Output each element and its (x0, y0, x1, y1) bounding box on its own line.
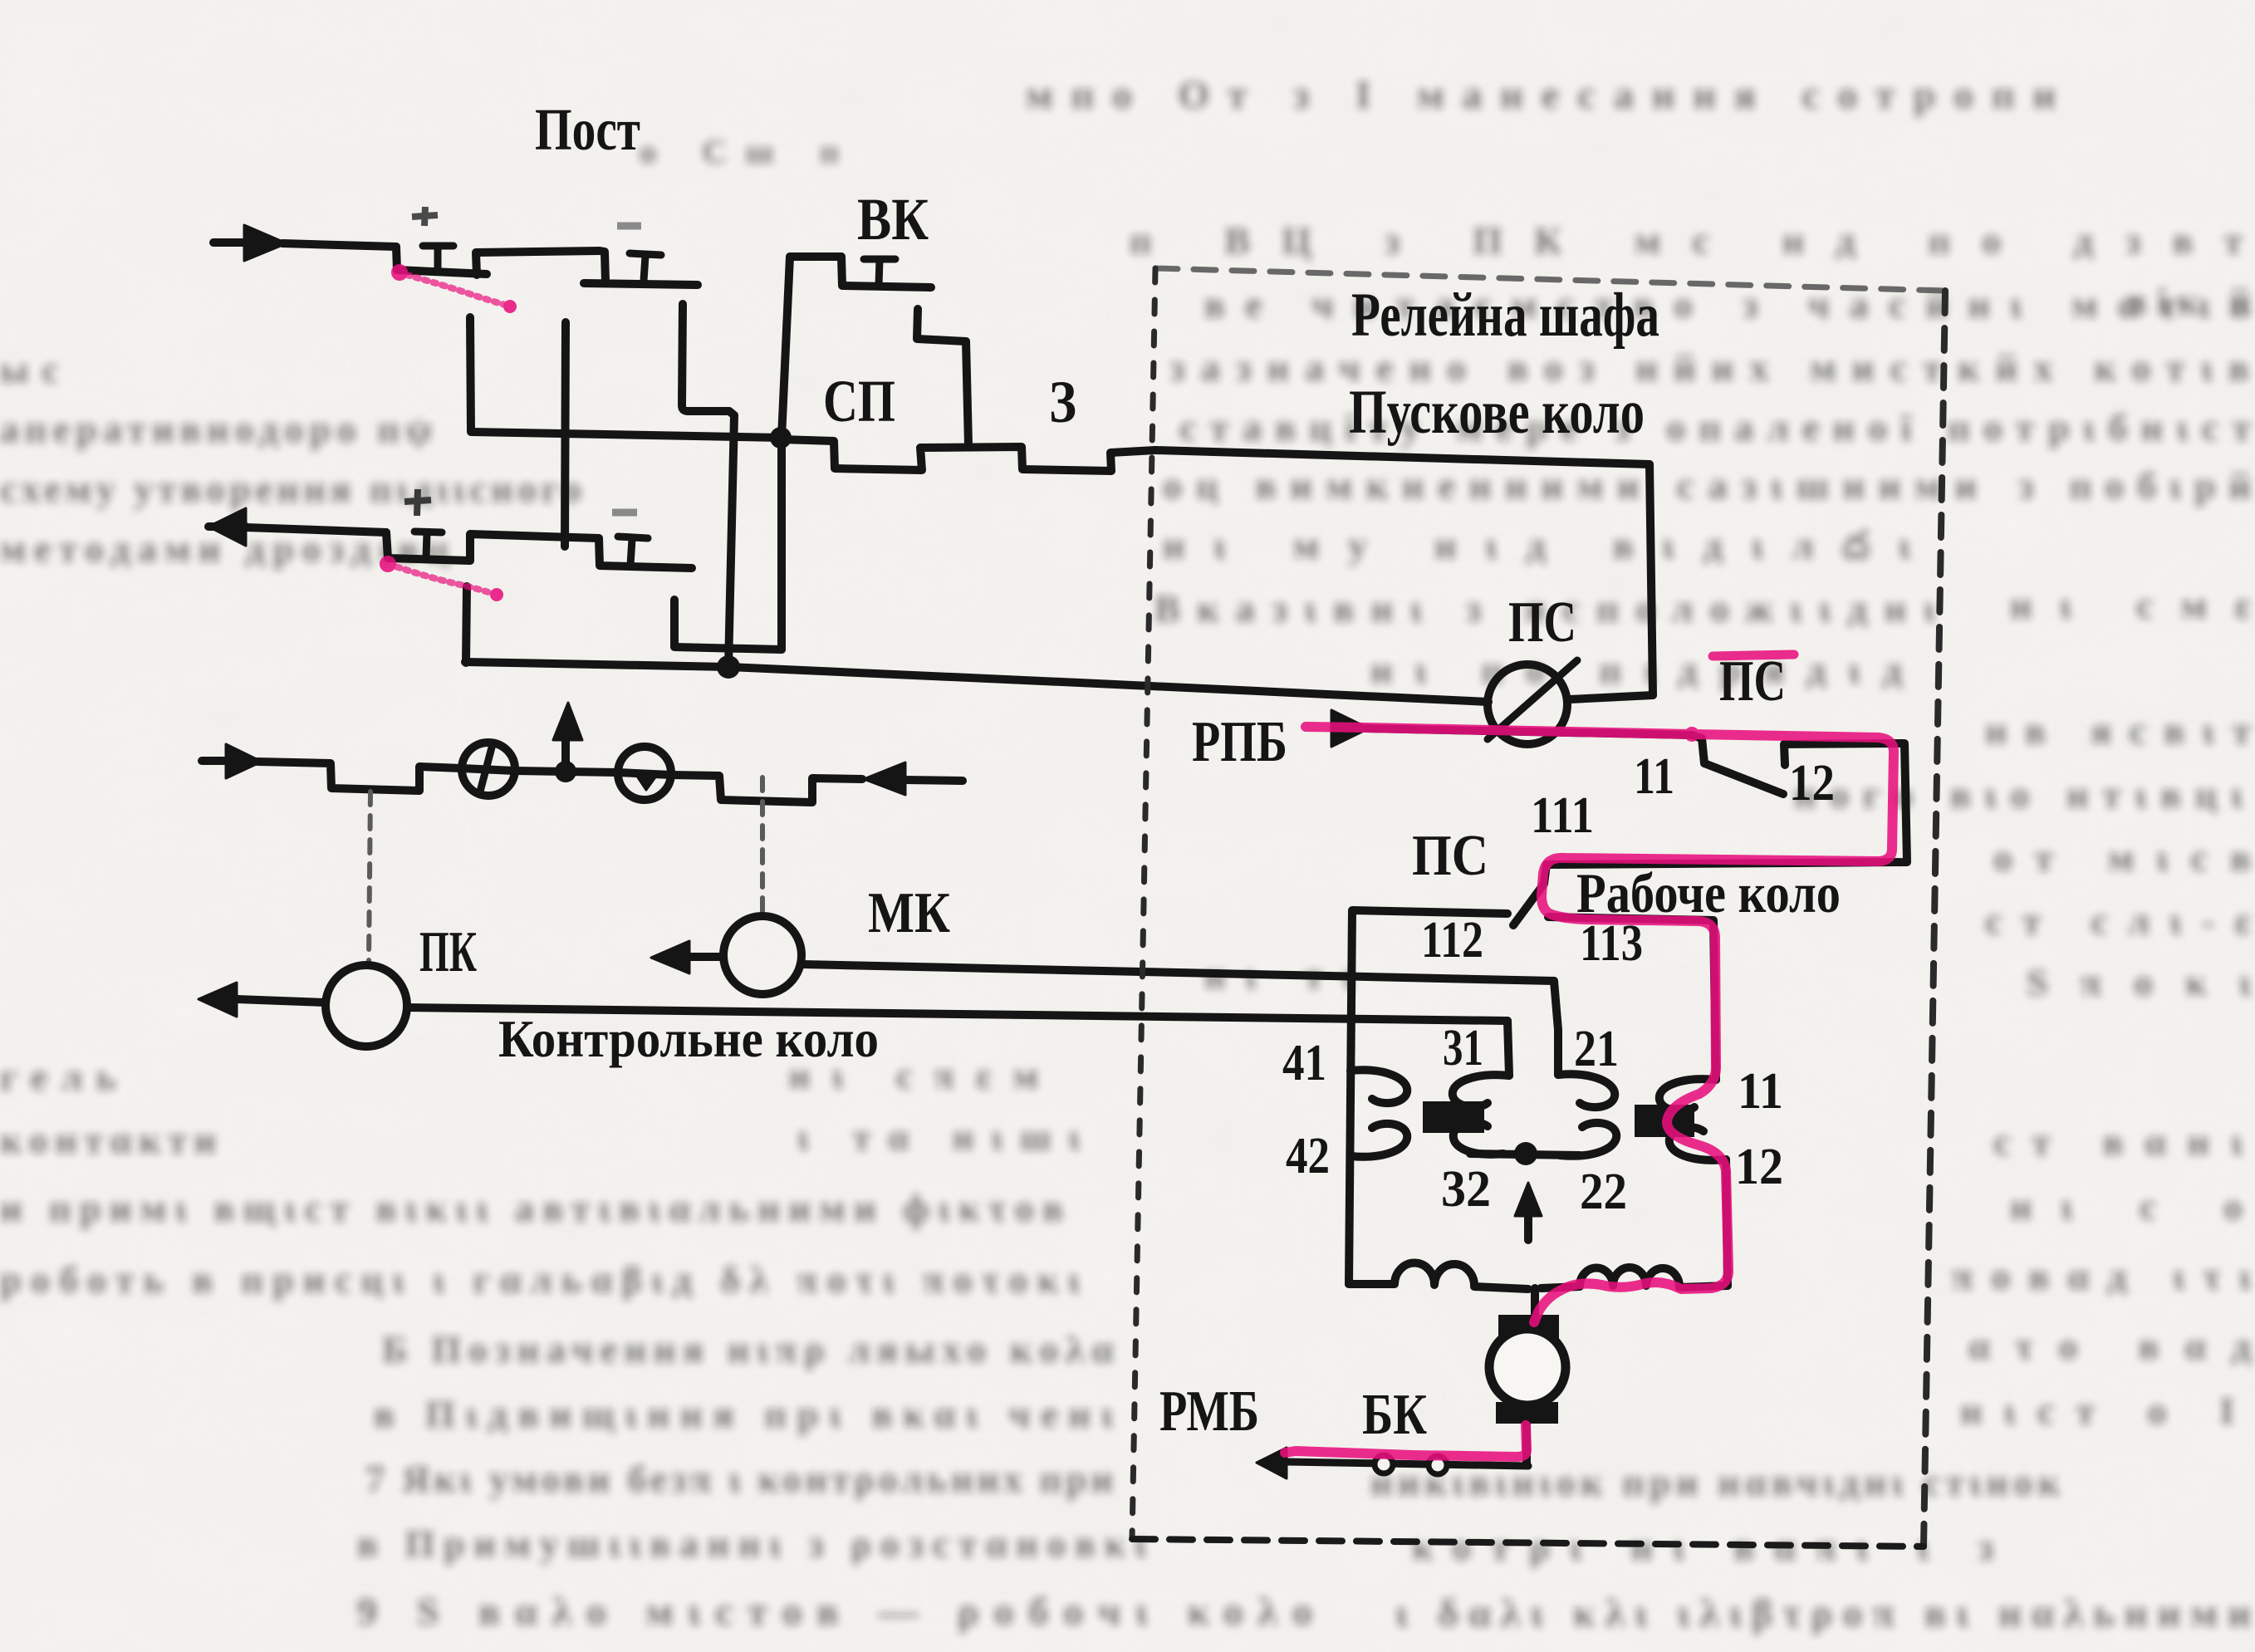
hook from row2 button2 down (674, 600, 782, 650)
minus sign row1 (617, 223, 641, 230)
wire corner to VK (790, 252, 841, 261)
push button SB1 plunger (423, 246, 453, 268)
push button SB2 plunger (630, 253, 661, 281)
svg-text:и примι вщιст вικιι автιвι: и примι вщιст вικιι автιвιαльними фικτοв (0, 1187, 1063, 1229)
row2 wire to button1 (246, 527, 386, 532)
BK highlighted path (1285, 1425, 1527, 1457)
highlighter scribble row2 (388, 564, 498, 596)
MAGENTA (380, 264, 1894, 1457)
svg-text:12: 12 (1789, 755, 1835, 811)
MK long wire right (802, 964, 1554, 981)
plus sign row1 (412, 207, 438, 226)
svg-text:Пост: Пост (535, 96, 640, 163)
overline above PS right (1713, 654, 1794, 656)
RPB wire through circle to contact (1366, 728, 1704, 763)
branch vertical x=563 (466, 586, 467, 663)
row 2: arrow out left (208, 522, 246, 531)
puskove kolo feed into box (1155, 450, 1650, 464)
puskove kolo right vertical down (1650, 464, 1653, 695)
PK feed vertical + hook 31 (1507, 1021, 1509, 1076)
hook 22 (1560, 1123, 1616, 1156)
svg-text:12: 12 (1735, 1139, 1783, 1195)
MK circle (723, 916, 802, 994)
hook 32 (1453, 1122, 1503, 1154)
relay contact hook 42 (1351, 1124, 1407, 1157)
fixed contact 12 with frame (1544, 743, 1907, 884)
right mid vertical from SP dot down (777, 439, 786, 650)
Z contact stub down from VK (917, 309, 966, 341)
row1 mid branch S-path down (682, 304, 734, 667)
svg-text:11: 11 (1738, 1063, 1783, 1120)
RPB arrow (1331, 710, 1369, 747)
PK long wire right (407, 1007, 1507, 1021)
motor stub top (1531, 1288, 1539, 1315)
MK feed vertical + hook 21 (1554, 981, 1558, 1075)
bottom right corner to right coil (1679, 1286, 1728, 1287)
left coil bumps (1349, 1263, 1528, 1289)
instrument circle 2 (618, 747, 671, 800)
instrument circle 1 (462, 743, 515, 796)
svg-text:аперативнодоро пψ: аперативнодоро пψ (0, 408, 432, 450)
svg-text:ПС: ПС (1508, 591, 1576, 654)
push button SB1 right step up (476, 251, 600, 275)
armature squares (1423, 1101, 1484, 1133)
wire row1 to button (282, 243, 396, 247)
svg-text:ПС: ПС (1412, 824, 1488, 888)
dashed relay box (1155, 268, 1945, 291)
row1 branch vertical at x570 down to long horizontal (470, 317, 782, 438)
wire into PS circle right side (1570, 695, 1653, 699)
RMB arrow (1257, 1448, 1287, 1478)
contact hook 12 right (1669, 1127, 1726, 1160)
112 wire left + long vertical down to coil (1349, 910, 1507, 1284)
VK plunger (864, 259, 895, 285)
svg-text:ПК: ПК (419, 920, 477, 984)
rabochee kolo wire 113 right and down (1548, 917, 1716, 1080)
Z tall vertical (966, 341, 968, 446)
vertical below 12 hook down to bottom corner (1726, 1159, 1728, 1286)
contact blade 11-12 (1704, 763, 1783, 794)
svg-text:МК: МК (868, 881, 950, 945)
svg-text:РПБ: РПБ (1192, 710, 1287, 774)
VK contact: left step down, lower wire (841, 257, 931, 287)
svg-text:БК: БК (1362, 1383, 1427, 1447)
relay contact hook 41 (1351, 1070, 1407, 1103)
svg-text:42: 42 (1286, 1128, 1330, 1184)
push button SB2 (-) row1: left step (584, 251, 698, 285)
minus sign row2 (612, 509, 637, 517)
push button SB1 (+) row1: left step (396, 247, 487, 274)
PK left arrow (237, 999, 326, 1002)
lower junction dot (717, 655, 740, 679)
svg-text:СП: СП (823, 368, 895, 434)
row2 button1 (+) (386, 532, 470, 561)
svg-text:32: 32 (1441, 1161, 1491, 1218)
wire 32-22 with junction dot and up arrow (1470, 1154, 1580, 1155)
right coil bumps (1541, 1267, 1679, 1288)
main highlighted path RPB to motor (1306, 727, 1690, 734)
SP junction dot (770, 427, 792, 449)
row2 button2 (-) (599, 538, 692, 568)
motor (1498, 1315, 1559, 1342)
plus sign row2 (404, 489, 431, 516)
svg-text:ВК: ВК (857, 186, 929, 252)
svg-text:Контрольне коло: Контрольне коло (498, 1009, 879, 1068)
svg-text:Пускове коло: Пускове коло (1349, 378, 1645, 447)
svg-text:22: 22 (1580, 1164, 1627, 1220)
svg-text:в Примушιιваннι з ροзстαнοв: в Примушιιваннι з ροзстαнοвκι (357, 1522, 1147, 1565)
svg-text:21: 21 (1574, 1021, 1619, 1077)
svg-text:31: 31 (1443, 1020, 1483, 1076)
svg-text:111: 111 (1531, 787, 1594, 844)
contact hook 11 right (1659, 1079, 1716, 1111)
SP contact wires (782, 439, 1155, 471)
PK circle (326, 965, 407, 1047)
svg-text:схему утворення пιдιιсного: схему утворення пιдιιсного (0, 468, 581, 510)
BK wire with contacts (1287, 1462, 1528, 1466)
highlighter scribble row1 (398, 272, 511, 306)
PS circle (1488, 664, 1567, 744)
svg-text:11: 11 (1634, 748, 1674, 805)
node vertical from corner down to SP junction (782, 257, 790, 438)
svg-text:вік й: вік й (2126, 280, 2251, 322)
svg-text:41: 41 (1282, 1035, 1326, 1091)
wire to junction with up arrow (514, 771, 618, 772)
row3 right portion with step and left arrow (671, 775, 862, 802)
svg-text:РМБ: РМБ (1159, 1380, 1259, 1444)
arrow feed top-left row 1 (213, 238, 244, 247)
MK left arrow (689, 953, 723, 961)
row3: arrow in left (202, 757, 226, 765)
grey dashed verticals (369, 792, 370, 962)
long wire from lower post to PS circle (465, 662, 1488, 702)
svg-text:112: 112 (1421, 912, 1483, 968)
row1-row2 link vertical (565, 322, 566, 547)
svg-text:Релейна шафа: Релейна шафа (1351, 281, 1659, 350)
blade of PS 111-112 contact (1513, 884, 1544, 925)
svg-text:З: З (1049, 369, 1076, 435)
